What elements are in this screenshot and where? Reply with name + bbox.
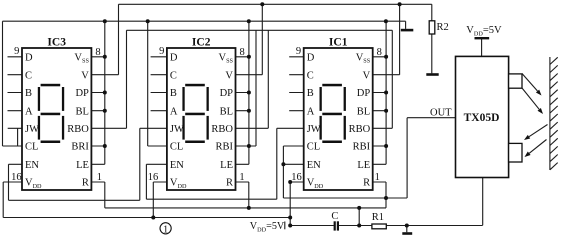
svg-text:16: 16	[291, 172, 302, 183]
svg-text:TX05D: TX05D	[464, 112, 500, 124]
svg-text:B: B	[25, 88, 32, 99]
svg-text:JW: JW	[25, 124, 39, 135]
svg-text:V: V	[225, 70, 233, 81]
svg-text:B: B	[170, 88, 177, 99]
svg-text:16: 16	[11, 172, 22, 183]
svg-text:9: 9	[296, 46, 301, 57]
svg-text:1: 1	[97, 172, 102, 183]
svg-text:R1: R1	[372, 212, 384, 223]
svg-text:C: C	[307, 70, 314, 81]
svg-text:OUT: OUT	[430, 108, 452, 119]
svg-text:IC1: IC1	[329, 36, 348, 48]
svg-text:A: A	[307, 106, 315, 117]
svg-text:BL: BL	[220, 106, 233, 117]
svg-text:VDD=5V: VDD=5V	[250, 221, 285, 233]
svg-text:LE: LE	[357, 160, 370, 171]
svg-text:8: 8	[95, 47, 100, 58]
svg-text:RBO: RBO	[211, 124, 233, 135]
svg-text:RBI: RBI	[353, 142, 371, 153]
svg-text:C: C	[170, 70, 177, 81]
svg-text:A: A	[170, 106, 178, 117]
svg-text:8: 8	[377, 47, 382, 58]
svg-text:R: R	[226, 178, 233, 189]
svg-text:CL: CL	[170, 142, 183, 153]
svg-text:9: 9	[159, 46, 164, 57]
svg-text:D: D	[307, 52, 315, 63]
svg-text:LE: LE	[220, 160, 233, 171]
svg-text:DP: DP	[75, 88, 89, 99]
svg-text:JW: JW	[307, 124, 321, 135]
svg-text:R: R	[82, 178, 89, 189]
svg-text:BL: BL	[357, 106, 370, 117]
svg-text:RBI: RBI	[215, 142, 233, 153]
svg-text:BRI: BRI	[71, 142, 89, 153]
svg-text:16: 16	[148, 172, 159, 183]
svg-text:IC3: IC3	[47, 36, 66, 48]
svg-text:9: 9	[14, 46, 19, 57]
svg-text:D: D	[170, 52, 178, 63]
svg-text:C: C	[25, 70, 32, 81]
svg-text:A: A	[25, 106, 33, 117]
svg-text:VDD=5V: VDD=5V	[466, 25, 502, 37]
svg-text:V: V	[363, 70, 371, 81]
svg-text:1: 1	[239, 172, 244, 183]
svg-text:DP: DP	[220, 88, 234, 99]
svg-text:R: R	[363, 178, 370, 189]
svg-text:JW: JW	[170, 124, 184, 135]
svg-text:D: D	[25, 52, 33, 63]
svg-text:R2: R2	[437, 22, 449, 33]
svg-text:EN: EN	[307, 160, 321, 171]
svg-text:IC2: IC2	[192, 36, 211, 48]
svg-text:1: 1	[375, 172, 380, 183]
svg-text:RBO: RBO	[67, 124, 89, 135]
svg-text:BL: BL	[75, 106, 88, 117]
svg-text:CL: CL	[25, 142, 38, 153]
svg-text:B: B	[307, 88, 314, 99]
svg-text:1: 1	[163, 224, 168, 235]
svg-text:8: 8	[239, 47, 244, 58]
svg-text:V: V	[81, 70, 89, 81]
svg-text:CL: CL	[307, 142, 320, 153]
svg-text:C: C	[331, 211, 338, 222]
svg-text:EN: EN	[170, 160, 184, 171]
svg-text:LE: LE	[76, 160, 89, 171]
svg-text:EN: EN	[25, 160, 39, 171]
svg-text:DP: DP	[357, 88, 371, 99]
svg-text:RBO: RBO	[349, 124, 371, 135]
